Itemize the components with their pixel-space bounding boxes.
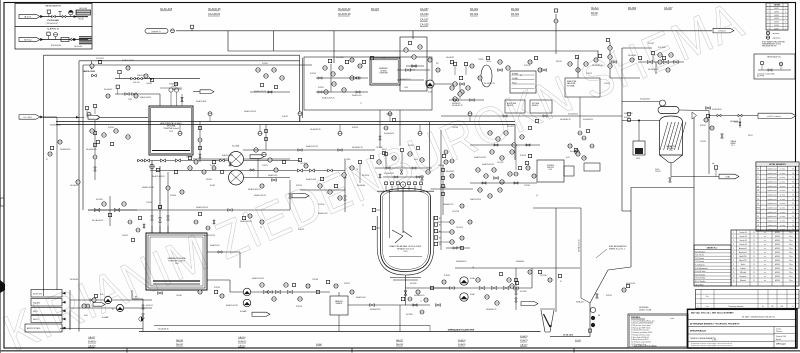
under T1 extras bbox=[212, 166, 216, 170]
drain point circles bbox=[590, 307, 595, 312]
wires O bbox=[430, 287, 532, 289]
svg-text:EV-110: EV-110 bbox=[78, 19, 83, 21]
wire flare header bbox=[176, 30, 712, 32]
svg-text:30-ACD-019-25: 30-ACD-019-25 bbox=[142, 186, 154, 189]
svg-text:30-PA-030: 30-PA-030 bbox=[516, 260, 524, 263]
svg-text:30-ACD-021-25: 30-ACD-021-25 bbox=[254, 194, 266, 197]
reactor right bubbles bbox=[438, 221, 450, 223]
svg-text:CA-307: CA-307 bbox=[664, 7, 673, 10]
svg-text:PL.1: PL.1 bbox=[731, 145, 734, 147]
extra valves bbox=[92, 74, 97, 77]
vent fan circle bbox=[660, 100, 666, 106]
svg-text:TI-3121: TI-3121 bbox=[262, 165, 268, 167]
svg-text:30-xx: 30-xx bbox=[789, 264, 793, 266]
svg-text:30: 30 bbox=[792, 199, 794, 201]
svg-text:T-01: T-01 bbox=[169, 131, 173, 133]
svg-text:PI-3122: PI-3122 bbox=[296, 185, 302, 187]
svg-text:XV-3125: XV-3125 bbox=[520, 291, 527, 293]
svg-text:TI-3111: TI-3111 bbox=[478, 59, 484, 61]
svg-text:QI-3127: QI-3127 bbox=[456, 247, 462, 249]
svg-text:10: 10 bbox=[733, 268, 735, 270]
tank T1 bbox=[149, 106, 193, 155]
svg-text:30-P05: 30-P05 bbox=[774, 22, 779, 24]
svg-text:30: 30 bbox=[792, 207, 794, 209]
svg-text:S-02: S-02 bbox=[428, 92, 432, 94]
reactor flange bbox=[377, 190, 434, 192]
svg-text:30-ACD-023: 30-ACD-023 bbox=[318, 212, 327, 215]
notes box bbox=[628, 314, 688, 348]
svg-text:LI-3103: LI-3103 bbox=[146, 83, 152, 85]
svg-text:TEHNOLOGISKA SHEMA PID: TEHNOLOGISKA SHEMA PID bbox=[690, 337, 716, 340]
svg-text:FI-3141: FI-3141 bbox=[606, 295, 612, 297]
liquid lines T3 bbox=[153, 280, 200, 282]
svg-text:30-ACD-020: 30-ACD-020 bbox=[306, 178, 316, 181]
funnel outlet line bbox=[550, 336, 590, 338]
svg-text:CA-018-20: CA-018-20 bbox=[208, 13, 221, 16]
tag box bbox=[510, 71, 536, 93]
reactor dome nozzles bbox=[385, 186, 387, 191]
svg-text:KIP pielik: KIP pielik bbox=[740, 272, 746, 274]
svg-text:PI-3133: PI-3133 bbox=[520, 155, 526, 157]
flag to flare bbox=[713, 28, 734, 33]
svg-text:Nr. 4047 / Z31-ML/05-004 / Z31: Nr. 4047 / Z31-ML/05-004 / Z31-96 mm bbox=[742, 316, 775, 319]
svg-text:LI-3140: LI-3140 bbox=[176, 295, 182, 297]
air filter unit bbox=[76, 10, 91, 15]
instrument bubble bbox=[54, 33, 58, 37]
discharge extras bbox=[413, 304, 417, 307]
svg-text:30: 30 bbox=[792, 182, 794, 184]
cluster mid-low bbox=[297, 169, 302, 172]
svg-text:30: 30 bbox=[792, 186, 794, 188]
svg-text:NaOH 42%: NaOH 42% bbox=[33, 293, 42, 295]
svg-text:PI-3137: PI-3137 bbox=[344, 283, 350, 285]
symbols below rev table bbox=[766, 31, 769, 34]
agitator motor bbox=[400, 182, 405, 187]
svg-text:PSV-01: PSV-01 bbox=[556, 61, 562, 63]
vent capsule bbox=[145, 29, 168, 34]
svg-text:DRENAZAS KOLEKTORS: DRENAZAS KOLEKTORS bbox=[448, 328, 475, 331]
svg-text:FV-3116: FV-3116 bbox=[344, 159, 350, 161]
svg-text:0: 0 bbox=[698, 306, 699, 308]
svg-text:30-ACD: 30-ACD bbox=[520, 339, 528, 342]
feed line to reactor top bbox=[243, 149, 375, 151]
drum capsule bbox=[658, 107, 679, 114]
valve bbox=[171, 29, 175, 33]
svg-text:30-AC-018: 30-AC-018 bbox=[160, 8, 173, 11]
wire bbox=[151, 161, 153, 234]
flag inlet air bbox=[19, 14, 40, 18]
svg-text:30-ACD-: 30-ACD- bbox=[238, 340, 247, 343]
svg-text:M: M bbox=[402, 185, 404, 187]
svg-text:TI-3108: TI-3108 bbox=[318, 204, 324, 206]
cluster F3 box bbox=[565, 78, 600, 97]
dip tube bbox=[389, 190, 391, 238]
svg-text:30-P07: 30-P07 bbox=[774, 28, 779, 30]
svg-text:SKIDUMA: SKIDUMA bbox=[167, 125, 176, 128]
black arrow bbox=[74, 15, 77, 18]
vertical 581 bbox=[556, 207, 581, 209]
svg-text:PA-30: PA-30 bbox=[591, 12, 598, 15]
text block bbox=[79, 36, 92, 37]
svg-text:M-01: M-01 bbox=[414, 159, 418, 161]
svg-text:3. KIP pec spec. 30-xx lapas 2: 3. KIP pec spec. 30-xx lapas 2 bbox=[631, 325, 651, 327]
svg-text:R-01: R-01 bbox=[404, 251, 408, 253]
wire boundary top bbox=[44, 54, 300, 56]
tap arrow bbox=[91, 61, 93, 67]
svg-text:30-PA-031-25: 30-PA-031-25 bbox=[486, 308, 496, 311]
svg-text:30-ACD-023-25: 30-ACD-023-25 bbox=[482, 163, 494, 166]
svg-text:PA-302: PA-302 bbox=[628, 7, 637, 10]
svg-text:25: 25 bbox=[753, 232, 755, 234]
svg-text:PIC-3109: PIC-3109 bbox=[336, 57, 344, 59]
svg-text:25: 25 bbox=[753, 256, 755, 258]
detail box top right bbox=[754, 54, 795, 79]
valves L bbox=[263, 290, 268, 293]
wire bbox=[679, 109, 709, 112]
svg-text:ANTIPUTOTAJS: ANTIPUTOTAJS bbox=[27, 327, 41, 330]
svg-text:30-Axx: 30-Axx bbox=[591, 7, 600, 10]
svg-text:30-CA-040: 30-CA-040 bbox=[357, 184, 365, 187]
svg-text:30-P01 Lapa 1: 30-P01 Lapa 1 bbox=[776, 344, 786, 346]
cluster G2 bbox=[638, 61, 684, 63]
cluster under pair bbox=[90, 129, 94, 133]
cluster A line2 bbox=[115, 93, 160, 95]
svg-text:25: 25 bbox=[753, 244, 755, 246]
svg-text:PCV-3115: PCV-3115 bbox=[658, 47, 666, 49]
svg-text:30-PA-018-25: 30-PA-018-25 bbox=[50, 124, 61, 127]
box E bbox=[400, 37, 427, 91]
svg-text:FI-3113: FI-3113 bbox=[524, 65, 530, 67]
svg-text:NaOCl: NaOCl bbox=[33, 319, 39, 321]
black box fan bbox=[633, 141, 645, 155]
liquid line bbox=[152, 150, 190, 152]
svg-text:NESEJS: NESEJS bbox=[507, 105, 513, 107]
svg-text:30-P06: 30-P06 bbox=[774, 25, 779, 27]
flag 2 bbox=[76, 116, 79, 119]
svg-text:30-xx: 30-xx bbox=[789, 280, 793, 282]
wire mid-left long bbox=[88, 209, 290, 211]
svg-text:PCV-02: PCV-02 bbox=[648, 43, 654, 45]
svg-text:TI-3138: TI-3138 bbox=[312, 279, 318, 281]
svg-text:LI-02: LI-02 bbox=[404, 87, 408, 89]
svg-text:TVERTNE: TVERTNE bbox=[379, 73, 388, 75]
EV circles bbox=[169, 88, 173, 92]
svg-text:30-ACD-: 30-ACD- bbox=[88, 340, 97, 343]
title block bbox=[688, 309, 798, 348]
svg-text:FV-3152: FV-3152 bbox=[206, 179, 212, 181]
extra bubbles bbox=[90, 64, 94, 68]
svg-text:30-CA-037-25: 30-CA-037-25 bbox=[352, 146, 363, 149]
svg-text:S-02..06 Sukni: S-02..06 Sukni bbox=[695, 271, 706, 273]
svg-text:PCV-3101: PCV-3101 bbox=[96, 58, 104, 60]
drops right F3 bbox=[579, 97, 581, 128]
svg-text:SATURS PL.1: SATURS PL.1 bbox=[707, 246, 718, 249]
svg-text:25: 25 bbox=[753, 280, 755, 282]
reactor vessel bbox=[381, 189, 431, 272]
svg-text:NEMEJS: NEMEJS bbox=[336, 303, 342, 305]
svg-text:30-PA-030-25: 30-PA-030-25 bbox=[456, 260, 466, 263]
svg-text:PI-3147: PI-3147 bbox=[282, 116, 288, 118]
svg-text:25: 25 bbox=[753, 268, 755, 270]
svg-text:IA 6-9 b: IA 6-9 b bbox=[24, 15, 32, 18]
svg-text:30-ACD: 30-ACD bbox=[458, 339, 466, 342]
svg-text:30-P03: 30-P03 bbox=[774, 15, 779, 17]
svg-text:13: 13 bbox=[733, 280, 735, 282]
F2 east bubbles bbox=[582, 136, 586, 140]
svg-text:PI-3109: PI-3109 bbox=[310, 73, 316, 75]
svg-text:30-ACD-018-25: 30-ACD-018-25 bbox=[244, 110, 256, 113]
wire bbox=[300, 189, 345, 191]
wire bbox=[154, 325, 430, 327]
svg-text:25: 25 bbox=[753, 248, 755, 250]
svg-text:FI-3149: FI-3149 bbox=[352, 127, 358, 129]
svg-text:30-ACD-022-25: 30-ACD-022-25 bbox=[240, 220, 252, 223]
svg-text:K-01: K-01 bbox=[669, 150, 672, 152]
svg-text:TI-3107: TI-3107 bbox=[146, 202, 152, 204]
svg-text:30: 30 bbox=[792, 225, 794, 227]
svg-text:T-03: T-03 bbox=[175, 263, 179, 265]
svg-text:PK-01: PK-01 bbox=[411, 70, 416, 72]
equipment list left bbox=[694, 245, 731, 286]
svg-text:30-CA-018-25: 30-CA-018-25 bbox=[158, 328, 169, 331]
svg-text:30-CA-040-25: 30-CA-040-25 bbox=[592, 64, 603, 67]
svg-text:30-xx: 30-xx bbox=[789, 232, 793, 234]
svg-text:30: 30 bbox=[792, 177, 794, 179]
cluster F2 bbox=[488, 131, 492, 135]
svg-text:30: 30 bbox=[792, 195, 794, 197]
svg-text:FI-01: FI-01 bbox=[84, 315, 88, 317]
svg-text:P-1. 305-7: P-1. 305-7 bbox=[24, 117, 32, 119]
svg-text:25: 25 bbox=[753, 240, 755, 242]
svg-text:ATTIRISANAS IEKARTA 7 "HLORVO: ATTIRISANAS IEKARTA 7 "HLORVODS. PROJEKT… bbox=[690, 322, 740, 325]
svg-text:GF-5,0-60: GF-5,0-60 bbox=[79, 8, 87, 10]
svg-text:30-PA-018-25: 30-PA-018-25 bbox=[60, 148, 70, 151]
pumps L bbox=[243, 288, 251, 296]
svg-text:CA-022: CA-022 bbox=[238, 344, 246, 347]
svg-text:30: 30 bbox=[792, 203, 794, 205]
svg-text:S-01 A/B: S-01 A/B bbox=[232, 145, 240, 148]
drops below box D bbox=[379, 110, 381, 148]
svg-text:TI-3134: TI-3134 bbox=[524, 185, 530, 187]
svg-text:PI-3126: PI-3126 bbox=[296, 306, 302, 308]
svg-text:30-ACD-019-25: 30-ACD-019-25 bbox=[254, 90, 266, 93]
svg-text:30-AC: 30-AC bbox=[316, 343, 323, 346]
funnel drain bbox=[540, 309, 555, 332]
reactor jacket bbox=[377, 216, 434, 275]
svg-text:FV-3105: FV-3105 bbox=[96, 199, 103, 201]
svg-text:30-PA-029-25: 30-PA-029-25 bbox=[414, 294, 424, 297]
svg-text:30-CA-041-25: 30-CA-041-25 bbox=[560, 118, 571, 121]
box small2 bbox=[564, 166, 574, 176]
box M bbox=[330, 296, 348, 315]
flag T1 right bbox=[200, 90, 214, 94]
svg-text:S-04B: S-04B bbox=[470, 294, 474, 296]
wire drop bbox=[273, 31, 275, 51]
svg-text:H2O2: H2O2 bbox=[33, 311, 38, 313]
svg-text:XV-3128: XV-3128 bbox=[406, 314, 413, 316]
chain x200 bbox=[199, 122, 201, 163]
svg-text:TI-3114: TI-3114 bbox=[604, 83, 610, 85]
svg-text:PIC-3117: PIC-3117 bbox=[507, 126, 514, 128]
svg-text:CA-024: CA-024 bbox=[238, 336, 246, 339]
cluster F squares bbox=[453, 62, 456, 65]
svg-text:30: 30 bbox=[792, 216, 794, 218]
svg-text:30-xx: 30-xx bbox=[789, 240, 793, 242]
svg-text:30-CA-037-25: 30-CA-037-25 bbox=[484, 82, 495, 85]
svg-text:30-CA-020: 30-CA-020 bbox=[104, 88, 112, 91]
svg-text:30-ACD-018: 30-ACD-018 bbox=[196, 100, 206, 103]
flag feed left bbox=[19, 115, 40, 120]
svg-text:PA-301: PA-301 bbox=[511, 8, 520, 11]
wire right vertical bbox=[693, 115, 695, 250]
svg-text:CA-037: CA-037 bbox=[420, 8, 429, 11]
svg-text:(PV-50x4-N2): (PV-50x4-N2) bbox=[51, 45, 62, 47]
cone bottom bbox=[660, 155, 683, 163]
svg-text:PA-027: PA-027 bbox=[371, 8, 380, 11]
scrubber column bbox=[660, 116, 683, 155]
svg-text:PI-3131: PI-3131 bbox=[700, 125, 706, 127]
svg-text:LV-3104: LV-3104 bbox=[170, 195, 176, 197]
svg-text:30-ACD-022: 30-ACD-022 bbox=[210, 244, 219, 247]
svg-text:25: 25 bbox=[753, 272, 755, 274]
svg-text:30-CA-019-25: 30-CA-019-25 bbox=[86, 148, 97, 151]
svg-text:S-05A/B: S-05A/B bbox=[240, 310, 247, 313]
T3 drain step bbox=[131, 290, 133, 299]
svg-text:30-xx: 30-xx bbox=[789, 268, 793, 270]
riser x590 bbox=[589, 303, 591, 337]
wire upper right boundary bbox=[228, 50, 598, 52]
header taps bbox=[179, 125, 181, 132]
tank T2 bbox=[370, 58, 400, 85]
svg-text:30-CA-050: 30-CA-050 bbox=[70, 278, 78, 281]
svg-text:CA-018: CA-018 bbox=[88, 344, 96, 347]
cluster between A and D bbox=[256, 68, 260, 72]
svg-text:25: 25 bbox=[753, 276, 755, 278]
wire boundary left bbox=[43, 55, 45, 292]
svg-text:("V3-10x10-0.6"): ("V3-10x10-0.6") bbox=[46, 23, 59, 25]
wire bbox=[78, 61, 80, 332]
svg-text:30-ACD-019: 30-ACD-019 bbox=[352, 94, 361, 97]
svg-text:EV-1/2: EV-1/2 bbox=[172, 86, 177, 88]
exchanger E2 bbox=[229, 170, 244, 185]
svg-text:Degviela. G: Degviela. G bbox=[152, 31, 162, 33]
flag inlet nitrogen bbox=[19, 37, 40, 41]
svg-text:30-PA-027-25: 30-PA-027-25 bbox=[443, 203, 453, 206]
vertical filter capsule bbox=[481, 65, 492, 87]
svg-text:PA-302: PA-302 bbox=[470, 13, 479, 16]
svg-text:uz ECO-1 sistemu: uz ECO-1 sistemu bbox=[767, 115, 781, 118]
svg-text:30-CA-035-20: 30-CA-035-20 bbox=[648, 68, 659, 71]
wire across mid bbox=[150, 170, 345, 172]
cluster O boundary bbox=[455, 267, 580, 269]
svg-text:PI-3146: PI-3146 bbox=[262, 63, 268, 65]
svg-text:PA-031: PA-031 bbox=[176, 343, 184, 346]
cluster D bubbles bbox=[323, 66, 327, 70]
box H-01 bbox=[537, 160, 564, 182]
two small boxes bbox=[505, 100, 525, 113]
svg-text:S-06A/B: S-06A/B bbox=[102, 316, 109, 319]
svg-text:30-xx: 30-xx bbox=[789, 256, 793, 258]
main header pair bbox=[56, 121, 515, 123]
orifice unit bbox=[61, 37, 69, 41]
left bottom verticals bbox=[43, 292, 45, 296]
svg-text:VS-01: VS-01 bbox=[636, 158, 640, 160]
svg-text:SLAPEKLIS: SLAPEKLIS bbox=[47, 27, 59, 30]
svg-text:30: 30 bbox=[792, 212, 794, 214]
dosing flags bbox=[31, 290, 62, 298]
wire bbox=[397, 69, 430, 71]
svg-text:XV-3120: XV-3120 bbox=[410, 283, 417, 285]
valve row bbox=[449, 99, 484, 101]
svg-text:30: 30 bbox=[792, 169, 794, 171]
reactor bottom outlet bbox=[406, 287, 456, 289]
svg-text:30-ACD: 30-ACD bbox=[520, 335, 528, 338]
svg-text:GF-5,0-54: GF-5,0-54 bbox=[74, 46, 82, 48]
reactor left nozzles bbox=[372, 208, 375, 211]
svg-text:30-xx: 30-xx bbox=[789, 272, 793, 274]
svg-text:30-VD-1512: 30-VD-1512 bbox=[563, 334, 573, 336]
svg-text:30-PA-041: 30-PA-041 bbox=[730, 120, 738, 123]
svg-text:PIESLEGUMI PEC PID: PIESLEGUMI PEC PID bbox=[762, 45, 776, 47]
svg-text:ABSORBENTA UN SALS: ABSORBENTA UN SALS bbox=[160, 122, 182, 125]
svg-text:KONDEN-: KONDEN- bbox=[547, 165, 555, 167]
svg-text:PI-3139: PI-3139 bbox=[214, 287, 220, 289]
svg-text:CA-037: CA-037 bbox=[420, 18, 429, 21]
cluster left C bbox=[43, 117, 84, 119]
svg-text:30: 30 bbox=[792, 220, 794, 222]
svg-text:IZMESI: IZMESI bbox=[730, 143, 736, 145]
svg-text:30-ACD-023-25: 30-ACD-023-25 bbox=[474, 156, 486, 159]
pH instrument bbox=[714, 166, 717, 169]
cluster F bubbles bbox=[450, 86, 454, 90]
drop x266 bbox=[265, 125, 267, 151]
svg-text:SPECIFIKACIJA: SPECIFIKACIJA bbox=[690, 329, 706, 332]
svg-text:PI-3142: PI-3142 bbox=[298, 229, 304, 231]
svg-text:SIA "Abc Tehn 03 u. BIO Valsts: SIA "Abc Tehn 03 u. BIO Valsts KONTEK" bbox=[691, 312, 734, 315]
svg-text:S-06: S-06 bbox=[100, 294, 103, 296]
left zone tick bbox=[0, 198, 4, 206]
control valve bbox=[69, 10, 73, 14]
instrument bbox=[190, 25, 193, 28]
vertical chain bbox=[94, 120, 96, 180]
flag O bbox=[521, 302, 538, 306]
svg-text:XV-3136: XV-3136 bbox=[540, 275, 547, 277]
pumps J bbox=[104, 296, 111, 303]
svg-text:PI-3135: PI-3135 bbox=[444, 275, 450, 277]
flag right bbox=[758, 113, 796, 118]
bubbles bbox=[254, 148, 258, 152]
svg-text:30-CA-020-25: 30-CA-020-25 bbox=[310, 128, 321, 131]
svg-text:Pirmreizeja izdosana: Pirmreizeja izdosana bbox=[729, 306, 744, 308]
svg-text:NESEJS: NESEJS bbox=[532, 105, 538, 107]
flag bbox=[292, 194, 309, 198]
svg-text:30-xx: 30-xx bbox=[789, 244, 793, 246]
svg-text:CA-040: CA-040 bbox=[420, 13, 429, 16]
flag drain bbox=[719, 174, 739, 179]
svg-text:blive PTFE: blive PTFE bbox=[757, 75, 764, 77]
branch T bbox=[59, 12, 61, 17]
svg-text:TI-02: TI-02 bbox=[128, 99, 132, 101]
wire right header bbox=[708, 111, 710, 116]
svg-text:30-ACD-020-25: 30-ACD-020-25 bbox=[196, 206, 208, 209]
exchanger E1 bbox=[229, 152, 244, 167]
svg-text:11: 11 bbox=[733, 272, 735, 274]
svg-text:N2 8 bar: N2 8 bar bbox=[24, 39, 32, 41]
svg-text:30-ACD-25: 30-ACD-25 bbox=[338, 13, 351, 16]
relief line up bbox=[555, 14, 557, 54]
svg-text:PA-301: PA-301 bbox=[470, 8, 479, 11]
bubbles right of pump bbox=[434, 83, 458, 85]
